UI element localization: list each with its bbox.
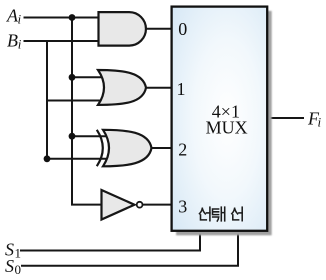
svg-text:0: 0 (178, 19, 187, 39)
node junction A-AND (69, 14, 76, 21)
svg-text:1: 1 (177, 79, 186, 99)
wire XOR top input (72, 135, 106, 137)
node junction B-XOR (44, 155, 51, 162)
wire B_i horizontal (24, 40, 100, 42)
wire F output (267, 117, 304, 119)
and-gate (99, 12, 146, 46)
hangul syllable seon 1 (200, 207, 210, 221)
xor-gate body (103, 130, 152, 167)
wire OR bottom input (47, 100, 105, 102)
svg-text:1: 1 (15, 245, 22, 260)
svg-text:2: 2 (178, 139, 187, 159)
svg-text:3: 3 (178, 196, 187, 216)
MUX box shadow (176, 11, 272, 235)
wire OR top input (72, 76, 105, 78)
xor-gate leading arc (97, 130, 103, 166)
svg-text:S: S (5, 256, 14, 276)
svg-text:i: i (318, 114, 322, 129)
node junction A-OR (69, 74, 76, 81)
wire B vertical bus (46, 41, 48, 159)
svg-text:0: 0 (15, 262, 22, 277)
hangul syllable taek (213, 207, 225, 221)
hangul syllable seon 2 (232, 207, 242, 221)
MUX box 4x1 (172, 7, 268, 231)
svg-text:B: B (7, 30, 18, 50)
not-gate bubble (137, 202, 143, 208)
wire S1 to MUX bottom (20, 231, 200, 251)
wire OR output to MUX pin 1 (146, 87, 172, 89)
node junction A-XOR (69, 133, 76, 140)
wire A vertical bus (72, 18, 102, 205)
svg-text:i: i (18, 11, 22, 26)
wire XOR output to MUX pin 2 (152, 147, 171, 149)
wire S0 to MUX bottom (21, 231, 238, 266)
svg-text:i: i (18, 36, 22, 51)
label seontaek seon (selection line) hangul, hand drawn (200, 207, 243, 221)
wire NOT output to MUX pin 3 (143, 204, 171, 206)
not-gate triangle U4 (102, 190, 135, 220)
or-gate (98, 70, 146, 105)
wire XOR bottom input (47, 158, 106, 160)
wire A_i horizontal (24, 17, 100, 19)
svg-text:MUX: MUX (206, 118, 248, 138)
wire AND output to MUX pin 0 (145, 28, 171, 30)
